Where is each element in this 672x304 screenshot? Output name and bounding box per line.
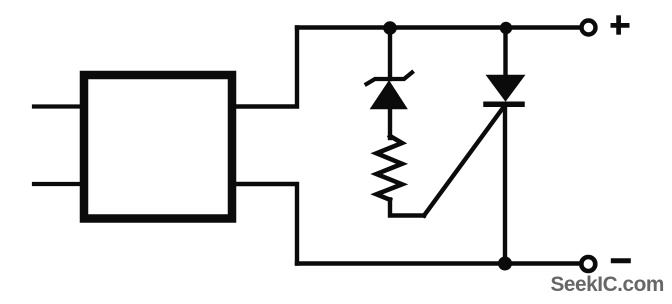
terminal circle negative	[581, 257, 595, 271]
wire input left bottom	[34, 182, 82, 186]
wire SCR cathode lead to bottom rail	[503, 104, 507, 264]
terminal circle positive	[582, 21, 596, 35]
junction dot zener / top rail	[383, 21, 397, 35]
junction dot SCR / top rail	[500, 22, 512, 34]
SCR cathode bar	[486, 102, 522, 108]
zener diode anode triangle	[371, 82, 407, 109]
plus sign label	[611, 15, 630, 34]
junction dot SCR / bottom rail	[498, 257, 512, 271]
regulator module box	[84, 75, 232, 219]
watermark SeekIC.com	[551, 273, 672, 297]
wire top rail	[297, 25, 581, 29]
wire SCR anode lead	[503, 28, 507, 77]
wire bottom rail	[297, 261, 581, 265]
wire resistor bottom lead to gate node	[390, 200, 424, 216]
wire box top output to top rail riser	[234, 28, 297, 107]
wire zener branch top lead	[388, 28, 392, 80]
wire zener anode to resistor	[388, 107, 392, 138]
minus sign label	[611, 258, 631, 263]
wire box bottom output to bottom rail riser	[234, 184, 297, 264]
zener diode cathode bar	[367, 73, 413, 85]
SCR anode triangle	[487, 76, 524, 101]
wire SCR gate diagonal	[424, 107, 504, 216]
wire input left top	[34, 104, 82, 108]
resistor zigzag	[377, 136, 403, 200]
